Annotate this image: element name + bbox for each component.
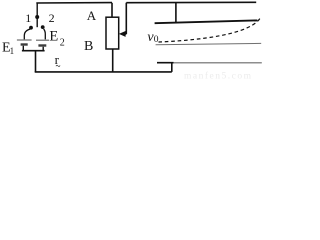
- svg-text:B: B: [84, 39, 93, 54]
- svg-text:2: 2: [49, 11, 55, 25]
- bottom plate lead (black part): [157, 62, 174, 64]
- battery E1 long plate: [17, 39, 32, 41]
- svg-text:2: 2: [60, 37, 65, 48]
- battery E1 short plate: [21, 43, 28, 45]
- wire pivot stub: [36, 3, 38, 27]
- battery E2 short plate: [38, 44, 46, 46]
- wire battery branch down: [35, 51, 37, 72]
- wire plate connector vertical: [175, 3, 177, 23]
- beam axis line: [156, 43, 262, 44]
- switch contact dot 2: [41, 25, 45, 29]
- svg-text:0: 0: [154, 35, 159, 45]
- svg-text:1: 1: [25, 11, 31, 25]
- wire contact1 to battery E1: [24, 29, 30, 39]
- wire top right: [126, 1, 256, 3]
- svg-text:1: 1: [10, 46, 15, 56]
- label r squiggle: [56, 65, 60, 66]
- battery E2 long plate: [36, 39, 49, 41]
- svg-text:E: E: [49, 29, 58, 45]
- switch pivot dot: [35, 15, 39, 19]
- top deflection plate: [155, 20, 258, 23]
- bottom deflection plate (gray): [174, 62, 262, 64]
- wire bottom: [35, 71, 172, 73]
- wire contact2 to battery E2: [44, 29, 46, 39]
- battery E2 stub: [42, 47, 44, 51]
- wire rheostat top stub: [111, 3, 113, 17]
- wire bottom plate to bottom wire: [171, 63, 173, 72]
- wire rheostat bottom stub: [112, 49, 114, 72]
- wiper arrowhead: [119, 31, 126, 37]
- electron trajectory dashed curve: [159, 17, 262, 43]
- svg-text:A: A: [87, 8, 97, 23]
- battery E1 stub: [22, 46, 24, 51]
- wire wiper riser: [125, 3, 127, 34]
- switch contact dot 1: [29, 26, 33, 30]
- wire top (pivot to rheostat): [36, 2, 112, 4]
- svg-text:manfen5.com: manfen5.com: [184, 71, 252, 82]
- wire junction bar under batteries: [22, 50, 45, 52]
- rheostat R box: [106, 17, 119, 49]
- wire wiper horizontal: [124, 33, 127, 35]
